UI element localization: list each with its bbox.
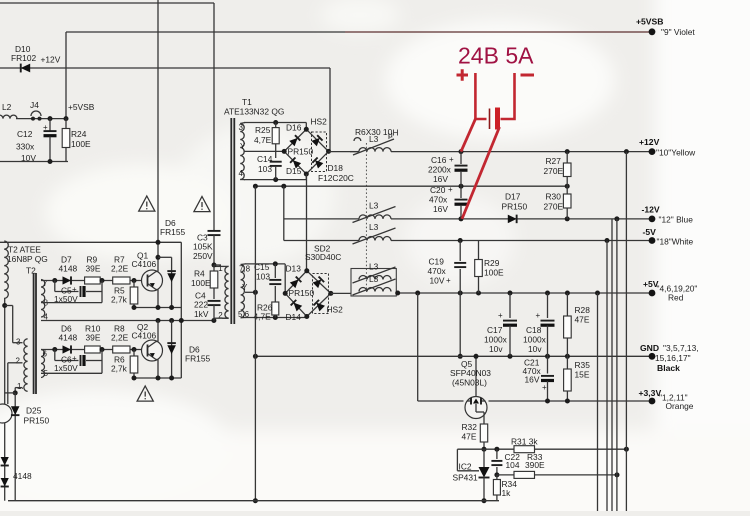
node C18 top <box>545 291 550 296</box>
capacitor C20 470x 16V <box>460 186 462 198</box>
svg-text:L3: L3 <box>369 274 379 284</box>
node pin1/D25 node <box>13 390 18 395</box>
svg-text:S30D40C: S30D40C <box>305 252 341 262</box>
diode 4148 b <box>1 478 9 487</box>
node bridge2 left corner <box>283 291 288 296</box>
resistor R6 2,7k <box>133 350 135 357</box>
wire sense line from +12V <box>625 152 627 511</box>
resistor R25 4,7E <box>275 123 277 128</box>
svg-text:+: + <box>498 311 503 320</box>
svg-text:D15: D15 <box>286 166 302 176</box>
warning triangle below Q2 <box>137 386 153 401</box>
svg-text:2,7k: 2,7k <box>111 364 128 374</box>
svg-text:-5V: -5V <box>643 227 657 237</box>
node C17 top <box>508 291 513 296</box>
wire Q5 drain up to GND rail <box>475 357 477 397</box>
node R35 bottom <box>565 399 570 404</box>
inductor left edge winding (cut) <box>4 241 8 298</box>
svg-text:104: 104 <box>506 460 520 470</box>
node bridge2 bottom corner <box>304 314 309 319</box>
node R27 bottom / R30 top <box>565 184 570 189</box>
wire long vertical x158 from top <box>157 0 159 257</box>
resistor R28 47E <box>566 293 568 316</box>
capacitor C14 103 <box>270 161 282 163</box>
wire Q2 emitter down <box>156 359 158 361</box>
svg-text:2,2E: 2,2E <box>111 264 129 274</box>
wire vertical from +5VSB bus down to L2/J4 node <box>65 32 67 119</box>
svg-text:270E: 270E <box>544 166 564 176</box>
svg-text:R31 3k: R31 3k <box>511 437 538 447</box>
diode D10 FR102 <box>21 64 30 73</box>
svg-text:C4106: C4106 <box>132 259 157 269</box>
svg-text:+5VSB: +5VSB <box>68 102 95 112</box>
svg-text:T2: T2 <box>26 266 36 276</box>
node C20 top <box>459 184 464 189</box>
svg-text:Y: Y <box>242 283 248 292</box>
svg-text:HS2: HS2 <box>311 117 328 127</box>
resistor R30 270E <box>566 186 568 194</box>
node rail left end x255.4 <box>253 184 258 189</box>
svg-text:100E: 100E <box>191 278 211 288</box>
diode SD2b bottom-right arm <box>313 300 325 312</box>
capacitor C19 470x 10V <box>459 241 461 262</box>
svg-text:μ: μ <box>388 130 393 140</box>
svg-text:H: H <box>393 128 399 138</box>
svg-text:250V: 250V <box>193 251 213 261</box>
resistor R29 100E <box>478 241 480 260</box>
wire R33 line y474.9 <box>497 474 617 476</box>
svg-text:+12V: +12V <box>41 54 61 64</box>
svg-text:C17: C17 <box>487 325 503 335</box>
node -12V output '12' Blue <box>649 216 656 223</box>
node bridge top corner <box>304 127 309 132</box>
svg-text:C12: C12 <box>17 129 33 139</box>
svg-text:FR155: FR155 <box>185 354 210 364</box>
wire +12V rail from bridge to choke <box>329 151 360 153</box>
node bridge2 top corner <box>304 268 309 273</box>
svg-text:100E: 100E <box>71 139 91 149</box>
svg-text:T2 ATEE: T2 ATEE <box>8 245 41 255</box>
wire T1 pin4 line to bridge bottom <box>244 179 306 181</box>
svg-text:1000x: 1000x <box>484 335 508 345</box>
wire +3.3V rail y401 <box>418 400 464 402</box>
node C21 bottom <box>545 399 550 404</box>
wire sense line from -5V <box>606 241 608 512</box>
svg-text:PR150: PR150 <box>288 147 314 157</box>
node +3.3V branch top <box>415 291 420 296</box>
svg-text:L3: L3 <box>369 262 379 272</box>
svg-text:15E: 15E <box>575 370 590 380</box>
svg-text:PR150: PR150 <box>24 416 50 426</box>
node C19 top <box>458 238 463 243</box>
svg-text:C4106: C4106 <box>132 331 157 341</box>
svg-text:(45N03L): (45N03L) <box>452 378 487 388</box>
red annotation 24V 5A battery <box>457 43 535 219</box>
node Q1 collector junction <box>156 255 161 260</box>
svg-text:R32: R32 <box>462 422 478 432</box>
svg-text:SFP40N03: SFP40N03 <box>450 368 491 378</box>
node +3,3V output '1,2,11' Orange <box>649 398 656 405</box>
node C22 bottom / R33-R34 node <box>494 472 499 477</box>
svg-text:PR150: PR150 <box>502 202 528 212</box>
svg-text:10V: 10V <box>430 276 445 286</box>
wire Q5 gate down <box>483 412 485 424</box>
svg-text:C14: C14 <box>257 154 273 164</box>
svg-text:2,2E: 2,2E <box>111 333 129 343</box>
wire C19 column continues +5V to GND <box>459 293 461 356</box>
capacitor C15 103 <box>274 264 276 278</box>
inductor L3 choke B <box>359 288 391 292</box>
node R26 bottom <box>273 315 278 320</box>
svg-text:15,16,17": 15,16,17" <box>655 353 691 363</box>
svg-text:100E: 100E <box>484 268 504 278</box>
svg-text:16V: 16V <box>525 375 540 385</box>
wire sense line from -12V <box>616 219 618 511</box>
diode D17 PR150 on -12V rail <box>508 215 517 224</box>
wire TL431 ref loop <box>456 449 458 471</box>
svg-text:47E: 47E <box>462 432 477 442</box>
svg-text:330x: 330x <box>16 142 35 152</box>
svg-text:D13: D13 <box>286 264 302 274</box>
node C15 top <box>273 261 278 266</box>
svg-text:+: + <box>542 383 547 392</box>
node R29 bottom <box>476 291 481 296</box>
wire +5V rail y293 <box>396 292 652 294</box>
node -5V sense branch <box>605 238 610 243</box>
resistor R33 390E horizontal <box>514 471 535 478</box>
wire T2 pin3 <box>13 342 23 344</box>
node C18 bottom / C21 top <box>545 354 550 359</box>
svg-text:4,7E: 4,7E <box>254 312 272 322</box>
wire +5VSB node line y118.6 <box>16 118 66 120</box>
wire T2 pin8 return <box>41 302 102 304</box>
svg-text:+: + <box>448 185 453 194</box>
svg-text:470x: 470x <box>428 266 447 276</box>
wire long vertical x214 (top border corner down to C3/R4/C4 column top) <box>213 3 215 231</box>
node C5 branch <box>52 278 57 283</box>
capacitor C17 1000x 10v <box>509 293 511 318</box>
node +5VSB output '9' Violet <box>649 28 656 35</box>
wire Q1 emitter down <box>156 289 158 291</box>
svg-text:103: 103 <box>258 164 272 174</box>
svg-text:R25: R25 <box>255 125 271 135</box>
node R9/R7 junction <box>100 278 105 283</box>
svg-text:10v: 10v <box>528 344 542 354</box>
node -5V output '18' White <box>649 237 656 244</box>
node C20 bottom / red - tap <box>459 216 464 221</box>
svg-text:R28: R28 <box>575 305 591 315</box>
svg-text:C19: C19 <box>429 257 445 267</box>
resistor R5 2,7k <box>133 281 135 288</box>
wire Q1 collector to top vertical <box>156 271 158 273</box>
svg-text:L3: L3 <box>369 134 379 144</box>
capacitor C3 105K 250V <box>208 230 221 232</box>
capacitor C12 330x 10V electrolytic <box>49 119 51 131</box>
node R5 branch <box>132 278 137 283</box>
optocoupler transistor (cut at edge) <box>0 404 12 423</box>
svg-text:4,7E: 4,7E <box>254 135 272 145</box>
svg-text:L3: L3 <box>369 222 379 232</box>
wire top border <box>0 2 214 4</box>
node gate node <box>482 447 487 452</box>
wire T1 Y tap to bridge left corner <box>244 150 284 152</box>
svg-text:HS2: HS2 <box>327 305 344 315</box>
bridge rectifier diamond D16/D15/PR150/D18 <box>284 129 328 174</box>
inductor L3 choke on -5V rail <box>359 237 391 241</box>
svg-text:47E: 47E <box>575 315 590 325</box>
wire Y tap y292.3 <box>245 291 255 293</box>
svg-text:Y: Y <box>240 142 246 151</box>
wire -5V rail y240.5 <box>391 240 652 242</box>
node junction R24 top <box>64 116 69 121</box>
node +5V output '4,6,19,20' Red <box>649 290 656 297</box>
node on x158 vertical <box>156 240 161 245</box>
wire sense line from +5V <box>597 293 599 511</box>
resistor R31 3k horizontal <box>514 446 535 453</box>
svg-text:24В 5А: 24В 5А <box>458 43 534 69</box>
transformer T1 top secondary winding pins 3-Y-4 <box>240 124 244 180</box>
inductor L3 choke on +12V rail <box>359 148 391 152</box>
wire +12V rail y151.6 <box>391 151 652 153</box>
wire stub y257.3 to clamp diode <box>158 256 172 258</box>
svg-text:10v: 10v <box>489 344 503 354</box>
svg-text:4148: 4148 <box>59 264 78 274</box>
node choke out <box>395 291 400 296</box>
svg-text:1.: 1. <box>17 382 24 391</box>
svg-text:Black: Black <box>657 363 680 373</box>
svg-text:7,8: 7,8 <box>239 265 251 274</box>
wire T2 pin1 to D25 <box>15 387 22 389</box>
node pin3 junction <box>2 303 7 308</box>
wire primary line y242.3 <box>0 241 181 243</box>
svg-text:470x: 470x <box>429 195 448 205</box>
dashed coupling line of L3 <box>365 143 367 292</box>
svg-text:+: + <box>536 311 541 320</box>
wire T2 pin5 return <box>41 372 102 374</box>
svg-text:103: 103 <box>256 272 270 282</box>
resistor R34 1k <box>496 475 498 480</box>
wire bridge2 output to +5V choke box <box>331 292 351 294</box>
wire from bridge1 bottom to bridge2 top <box>306 174 308 271</box>
resistor R26 4,7E <box>272 302 279 315</box>
wire T2 pin2 <box>8 362 23 364</box>
resistor R24 100E <box>65 119 67 129</box>
wire T1 pin3 to bridge top <box>244 122 306 124</box>
node R10/R8 junction <box>100 347 105 352</box>
svg-text:D25: D25 <box>26 406 42 416</box>
resistor R32 47E <box>480 424 487 442</box>
capacitor C22 104 <box>496 449 498 459</box>
wire common vertical x255.4 down to bottom rail <box>254 186 256 501</box>
resistor R4 100E <box>213 265 215 271</box>
capacitor C18 1000x 10v <box>547 293 549 318</box>
node R25 top <box>273 120 278 125</box>
resistor R9 39E <box>85 277 101 284</box>
node R27 top <box>565 149 570 154</box>
capacitor C4 222 1kV <box>208 300 221 302</box>
svg-text:1x50V: 1x50V <box>54 363 78 373</box>
svg-text:D18: D18 <box>328 163 344 173</box>
svg-text:+: + <box>446 276 451 285</box>
diode D6 4148 base <box>63 345 72 353</box>
wire bottom of C12/R24 to left edge <box>0 161 68 163</box>
bridge rectifier SD2 S30D40C diamond <box>285 271 331 317</box>
diode D25 PR150 <box>14 393 16 501</box>
wire +5VSB bus y32 <box>66 31 345 33</box>
dashed outline D18 package <box>312 132 327 172</box>
svg-text:GND: GND <box>640 343 659 353</box>
node R28 top <box>565 291 570 296</box>
node GND left on common vertical <box>253 354 258 359</box>
svg-text:T1: T1 <box>242 97 252 107</box>
svg-text:16N8P QG: 16N8P QG <box>7 254 48 264</box>
svg-text:2200x: 2200x <box>428 165 452 175</box>
svg-text:16V: 16V <box>433 174 448 184</box>
svg-text:ATE133N32 QG: ATE133N32 QG <box>224 107 284 117</box>
transformer T2 left winding pins 3-2-1 <box>24 339 28 392</box>
resistor R35 15E <box>566 356 568 369</box>
node GND output '3,5,7,13,15,16,17' Black <box>649 353 656 360</box>
node R4 top / pin1 <box>212 263 217 268</box>
node R31 line to C22 <box>494 447 499 452</box>
node R25/C14 bottom <box>273 177 278 182</box>
node -12V sense branch <box>614 216 619 221</box>
svg-text:390E: 390E <box>525 460 545 470</box>
inductor L3 choke on -12V rail <box>359 215 391 219</box>
svg-text:D14: D14 <box>286 312 302 322</box>
diode SD2a top-right arm <box>313 277 325 289</box>
svg-text:C16: C16 <box>431 155 447 165</box>
svg-text:L3: L3 <box>369 201 379 211</box>
wire GND rail y356.3 <box>255 355 652 357</box>
wire Q2 collector up <box>156 341 158 343</box>
svg-text:1000x: 1000x <box>523 335 547 345</box>
svg-text:+: + <box>72 285 77 294</box>
capacitor C5 1x50V across R9 <box>54 281 56 292</box>
double choke L3 box for +5V <box>351 269 396 297</box>
wire -12V feed y218.9 to choke <box>284 218 359 220</box>
capacitor C21 470x 16V <box>547 356 549 373</box>
node bridge left corner (Y input) <box>282 149 287 154</box>
wire sense line 3 <box>611 219 613 511</box>
jumper J4 <box>31 117 35 121</box>
svg-text:R4: R4 <box>194 269 205 279</box>
diode D18b bottom-right arm <box>312 157 323 168</box>
node Y tap on common vertical <box>253 290 258 295</box>
wire Q2 collector line y320.5 <box>41 320 214 322</box>
wire +3.3V branch from +5V rail <box>417 293 419 401</box>
svg-text:R27: R27 <box>546 156 562 166</box>
svg-text:16V: 16V <box>433 204 448 214</box>
resistor R8 2,2E <box>113 346 130 353</box>
svg-text:C18: C18 <box>526 325 542 335</box>
inductor L3 choke A <box>359 276 391 280</box>
node bridge bottom corner <box>304 172 309 177</box>
svg-text:+: + <box>449 155 454 164</box>
wire Q2 emitter rail y378 <box>134 377 181 379</box>
wire Q2 base line y349.5 <box>41 349 148 351</box>
diode D16 top-left arm <box>289 135 300 146</box>
node R31 right end on +12V sense line <box>624 447 629 452</box>
svg-text:39E: 39E <box>86 264 101 274</box>
svg-text:F12C20C: F12C20C <box>318 173 354 183</box>
node C16 top / red + tap <box>459 149 464 154</box>
svg-text:4148: 4148 <box>13 471 32 481</box>
svg-text:J4: J4 <box>30 100 39 110</box>
svg-text:C20: C20 <box>430 185 446 195</box>
node +12V output '10' Yellow <box>649 148 656 155</box>
node C19 bottom on +5V rail <box>458 291 463 296</box>
wire Q1 emitter rail y307.5 <box>134 307 181 309</box>
svg-text:6: 6 <box>43 350 48 359</box>
transformer T1 lower secondary winding pins 7,8-Y-5,6 <box>241 265 245 318</box>
svg-text:D17: D17 <box>505 192 521 202</box>
wire -5V feed y240.5 to choke <box>284 240 359 242</box>
diode D18a top-right arm <box>311 135 322 146</box>
warning triangle near C3 <box>194 197 210 212</box>
wire bottom rail y500.7 <box>8 500 499 502</box>
wire vertical x330 down to +12V rail <box>329 68 331 152</box>
svg-text:PR150: PR150 <box>289 288 315 298</box>
transformer T2 right lower winding pins 6-5 <box>41 350 45 378</box>
node +5V sense branch <box>595 291 600 296</box>
node R28 bottom / R35 top <box>565 354 570 359</box>
capacitor C6 1x50V across R10 <box>54 350 56 361</box>
wire drop to bridge2 left corner <box>284 264 286 294</box>
svg-text:270E: 270E <box>544 202 564 212</box>
svg-text:+5VSB: +5VSB <box>636 17 663 27</box>
svg-text:"12" Blue: "12" Blue <box>659 215 694 225</box>
diode D15 bottom-left arm <box>290 157 301 168</box>
wire left vertical below optocoupler <box>4 423 6 501</box>
diode D13 top-left arm <box>290 277 302 289</box>
resistor R10 39E <box>85 346 101 353</box>
wire R31 feedback line y449.2 <box>457 448 626 450</box>
transformer T1 primary winding pins 1-2 <box>225 266 229 318</box>
wire +12V feed line y68 with D10 <box>0 67 330 69</box>
svg-text:C15: C15 <box>254 262 270 272</box>
wire common rail y186.2 <box>255 185 567 187</box>
svg-text:FR155: FR155 <box>160 227 185 237</box>
node C6 branch <box>52 347 57 352</box>
svg-text:R30: R30 <box>546 192 562 202</box>
svg-text:2.: 2. <box>16 357 23 366</box>
svg-text:IC2: IC2 <box>459 462 472 472</box>
wire lower secondary top rail y263.9 <box>245 263 285 265</box>
diode D7 4148 <box>63 276 72 284</box>
svg-text:+: + <box>72 354 77 363</box>
IC2 SP431 shunt regulator <box>483 449 485 467</box>
svg-text:R24: R24 <box>71 129 87 139</box>
resistor R27 270E <box>566 152 568 163</box>
wire left vertical x4.7 <box>4 298 6 404</box>
svg-text:1k: 1k <box>502 488 512 498</box>
node common vertical bottom <box>253 498 258 503</box>
inductor L2 <box>0 115 17 118</box>
diode D6 FR155 lower clamp <box>171 321 173 379</box>
svg-text:39E: 39E <box>86 333 101 343</box>
transformer T1 core <box>230 118 232 324</box>
wire lower secondary bottom rail y317.5 <box>245 317 307 319</box>
svg-text:R29: R29 <box>484 258 500 268</box>
svg-text:4: 4 <box>239 169 244 178</box>
node C19 column on GND rail <box>458 354 463 359</box>
svg-text:+: + <box>43 123 48 132</box>
node C12 bottom <box>48 159 53 164</box>
transformer T2 core <box>33 273 35 394</box>
svg-text:"18"White: "18"White <box>657 237 694 247</box>
transformer T2 right winding pins 7-8-4 <box>41 280 45 318</box>
